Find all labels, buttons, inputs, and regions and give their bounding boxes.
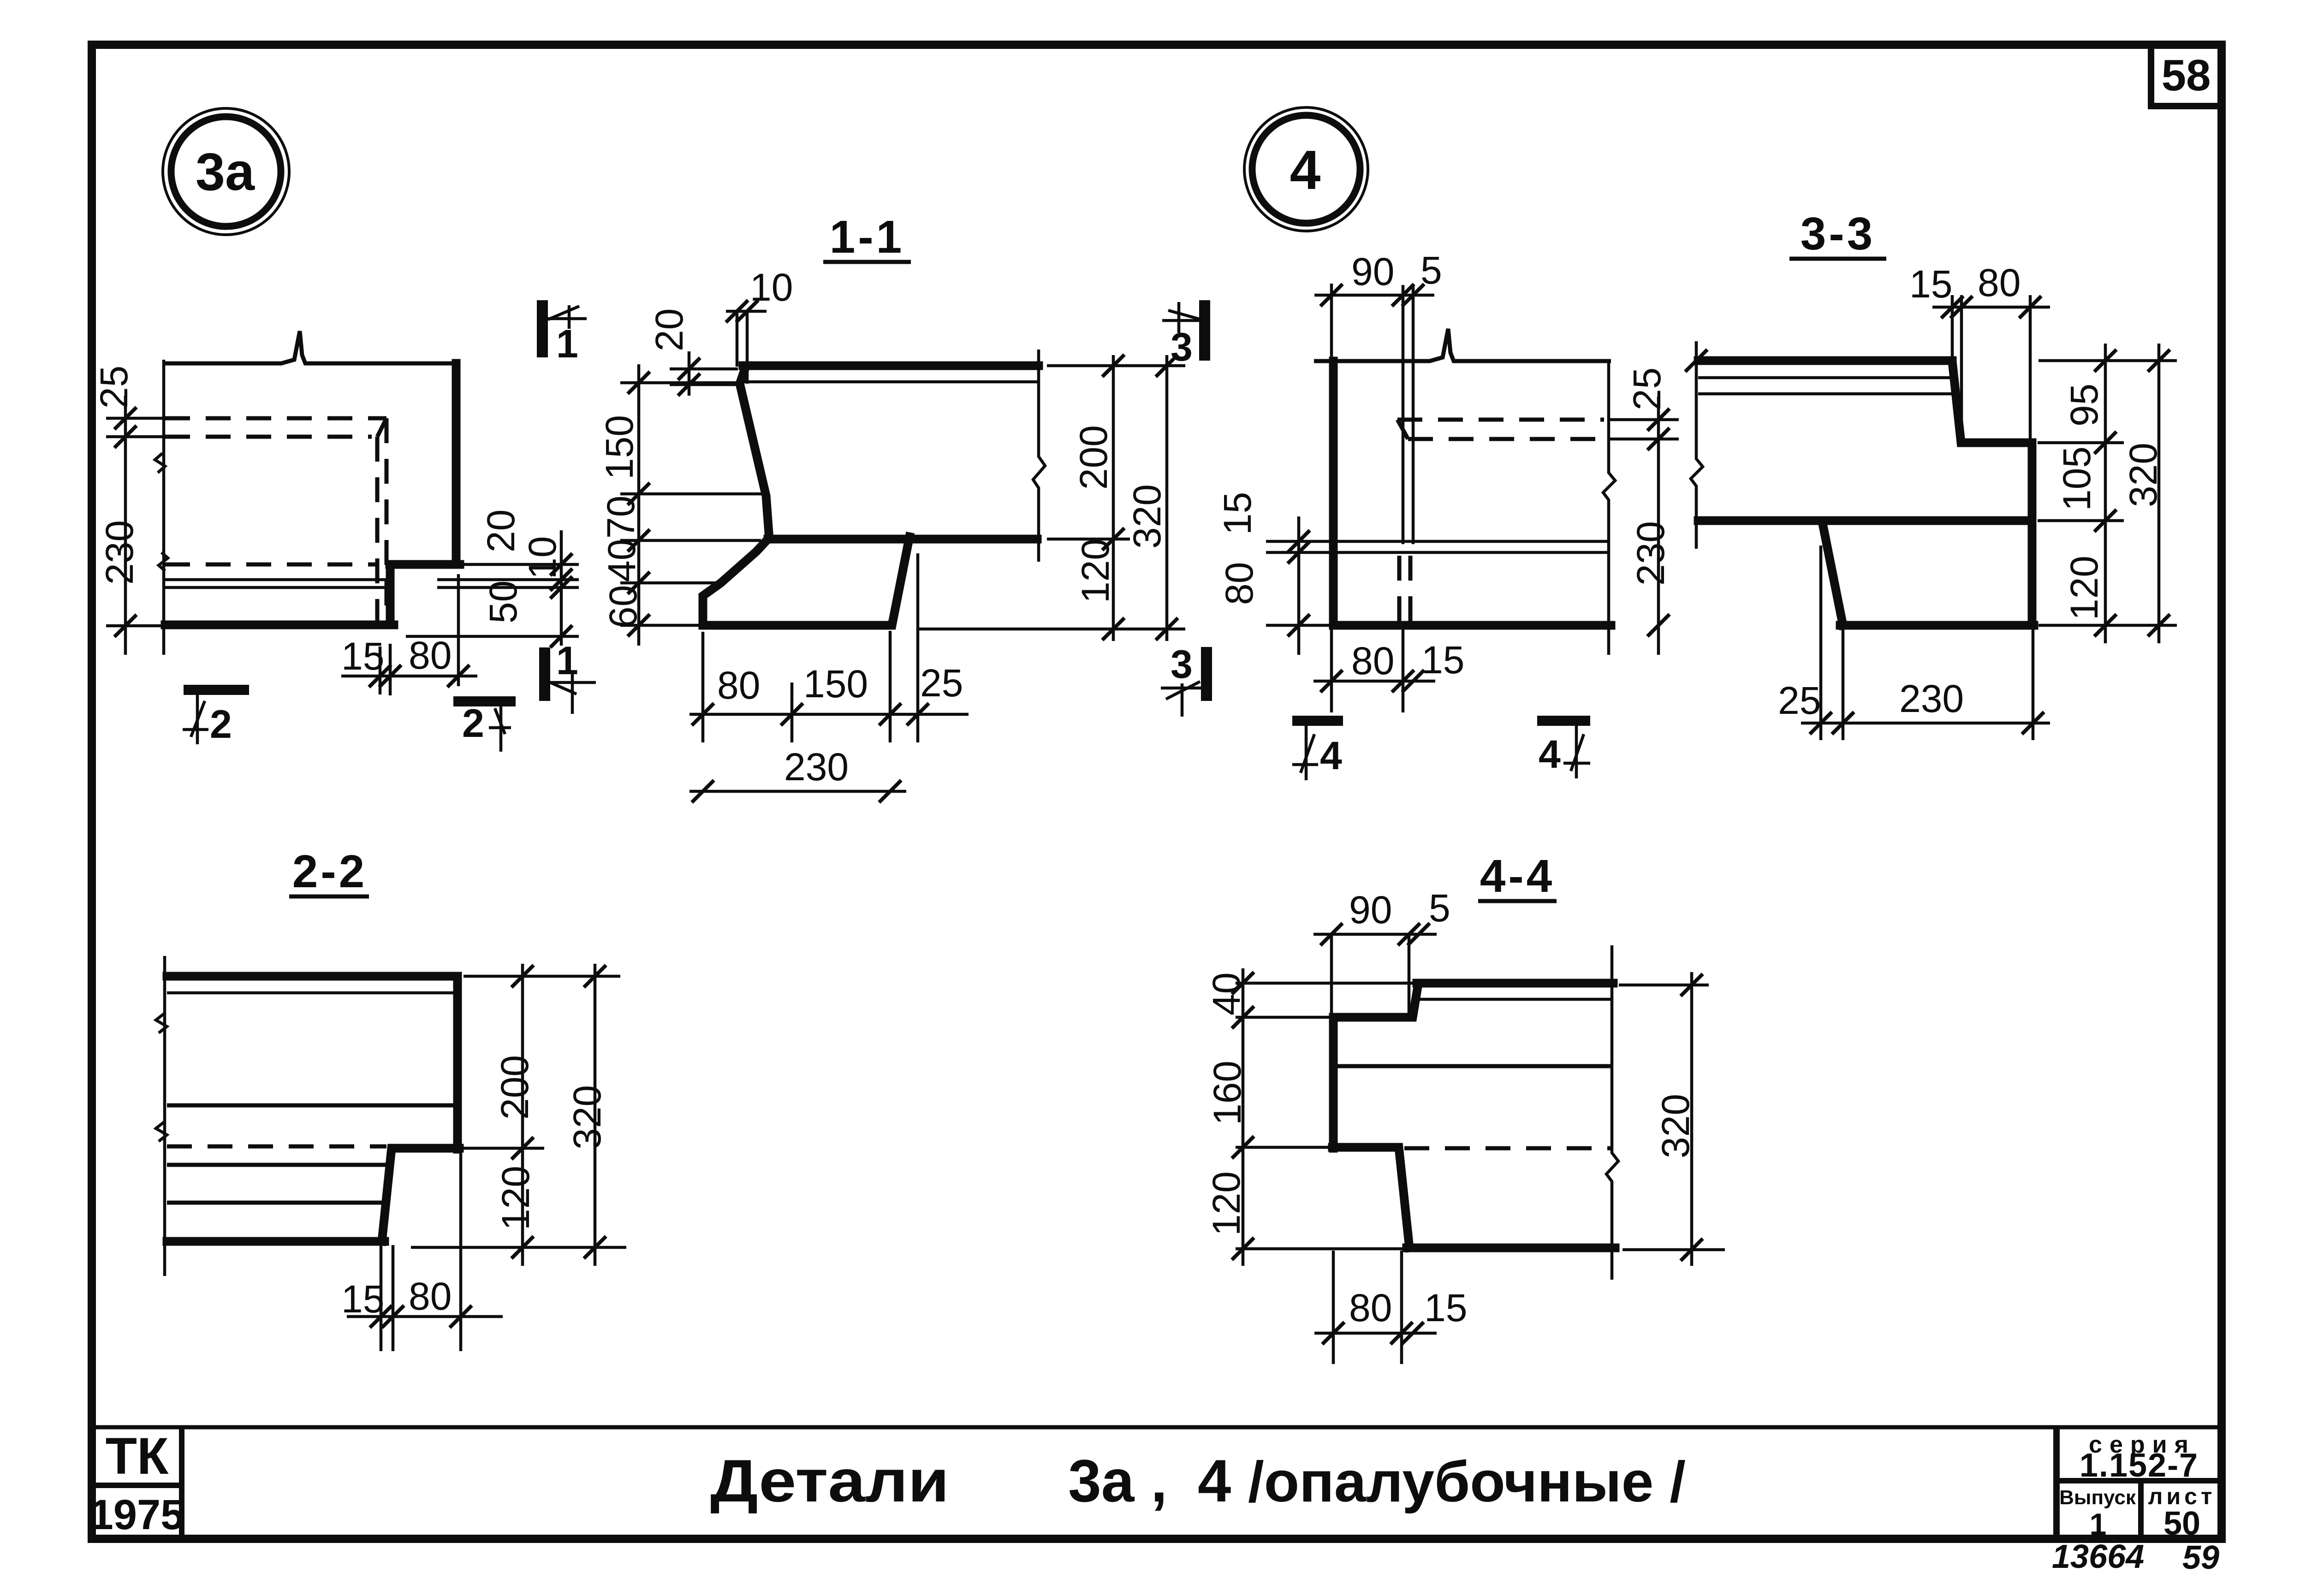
plan 4 double line inner xyxy=(1412,285,1415,544)
section 4-4 top dim ticks xyxy=(1320,923,1343,945)
section mark 2 left xyxy=(183,690,249,747)
plan 3a right dim ext y1257 xyxy=(437,578,579,581)
section 4-4 top edge xyxy=(1417,979,1613,988)
section 2-2 board line 1 xyxy=(167,1163,389,1167)
svg-text:120: 120 xyxy=(1074,539,1117,603)
section 1-1 left dim line 150/70/40/60 xyxy=(637,364,641,646)
plan 4 left ext lines xyxy=(1266,540,1332,543)
section 4-4 bottom dim ticks xyxy=(1322,1322,1344,1344)
section 2-2 bottom ext x826 xyxy=(380,1245,383,1351)
section 1-1 lower ledge outline xyxy=(703,537,909,625)
section 1-1 20 ext lines xyxy=(670,368,738,371)
plan 3a dim tick y1366 xyxy=(114,615,137,637)
svg-text:3а: 3а xyxy=(196,142,255,202)
plan 3a right dim ext y1366 xyxy=(406,635,579,638)
svg-text:2-2: 2-2 xyxy=(292,846,368,897)
svg-text:4: 4 xyxy=(1539,732,1561,777)
section mark 1 top xyxy=(542,300,587,366)
section mark 4 right xyxy=(1537,721,1590,778)
svg-text:80: 80 xyxy=(409,634,452,677)
section 4-4 right ext y2136 xyxy=(1619,984,1709,987)
plan 3a bottom dim line 15/80 xyxy=(341,675,477,678)
section 1-1 dim line 230 xyxy=(689,790,906,793)
section 1-1 bottom ext x1930 xyxy=(889,631,892,742)
plan 4 left dim line 15/80 xyxy=(1297,516,1301,655)
plan 3a dim tick y947 xyxy=(114,426,137,448)
section 1-1 bottom ext x1524 xyxy=(701,632,705,742)
plan 4 right dim ticks xyxy=(1647,409,1670,431)
svg-text:60: 60 xyxy=(601,585,645,628)
section 3-3 top ext x4253 xyxy=(1960,295,1963,446)
section 3-3 right dim ticks inner xyxy=(2094,350,2116,372)
section 4-4 mid line xyxy=(1335,1064,1611,1068)
svg-text:230: 230 xyxy=(1629,521,1672,586)
svg-text:5: 5 xyxy=(1420,249,1442,292)
plan 4 right dim line 25/230 xyxy=(1657,397,1660,655)
svg-text:Детали: Детали xyxy=(710,1447,949,1514)
section 1-1 ext for 10 right xyxy=(746,311,749,384)
section 3-3 top ext x4233 xyxy=(1951,295,1954,364)
svg-text:2: 2 xyxy=(210,702,232,747)
svg-text:80: 80 xyxy=(1349,1286,1392,1329)
section 3-3 right dim line 320 xyxy=(2157,344,2161,643)
svg-text:15: 15 xyxy=(1216,492,1259,535)
section 4-4 title underline xyxy=(1478,899,1557,903)
svg-text:4: 4 xyxy=(1320,734,1342,778)
svg-text:120: 120 xyxy=(494,1166,537,1230)
section 3-3 top dim line 15/80 xyxy=(1932,306,2050,309)
plan 3a formwork board line upper xyxy=(165,578,390,581)
section 4-4 bottom edge xyxy=(1407,1244,1615,1252)
section 1-1 left outline xyxy=(740,367,769,539)
section 4-4 left ext y2697 xyxy=(1236,1247,1406,1251)
plan 3a bottom dim ext x820 xyxy=(379,647,382,694)
section 3-3 slab top edge xyxy=(1698,356,1952,365)
section 3-3 right step outline xyxy=(1952,362,2032,625)
svg-text:25: 25 xyxy=(1625,368,1669,410)
section 3-3 right dim line 95/105/120 xyxy=(2104,344,2107,643)
plan 3a bottom face line xyxy=(165,621,394,629)
section 1-1 title underline xyxy=(823,260,911,264)
plan 3a hidden vertical dashed inner xyxy=(375,437,380,622)
section 4-4 left dim line 40/160/120 xyxy=(1242,968,1245,1266)
svg-text:3а ,: 3а , xyxy=(1068,1447,1167,1514)
svg-text:200: 200 xyxy=(493,1055,536,1120)
plan 3a dashed line at step level xyxy=(165,563,376,567)
svg-text:1: 1 xyxy=(556,322,578,366)
section 4-4 top ext x2887 xyxy=(1330,934,1333,1019)
section 2-2 mid line xyxy=(167,1104,458,1108)
svg-text:80: 80 xyxy=(1351,639,1394,682)
section 4-4 step outline xyxy=(1333,984,1418,1148)
svg-text:320: 320 xyxy=(1654,1094,1697,1158)
plan 3a hidden edge dashed lower xyxy=(165,435,372,439)
section 3-3 slab bottom edge xyxy=(1698,516,2032,525)
section 4-4 320 ticks xyxy=(1681,974,1703,996)
section 4-4 bottom ext x2891 xyxy=(1332,1251,1335,1364)
section 2-2 bottom edge xyxy=(167,1237,385,1246)
section 1-1 top dim line 10 xyxy=(726,310,767,313)
section 2-2 left extension line xyxy=(163,956,166,1276)
plan 4 bottom ext x3042 xyxy=(1402,628,1405,712)
svg-text:80: 80 xyxy=(717,664,760,707)
plan 3a right dim vertical line xyxy=(560,530,563,646)
svg-text:1: 1 xyxy=(556,639,578,683)
plan 3a hidden vertical dashed outer xyxy=(385,418,389,622)
svg-text:15: 15 xyxy=(1424,1286,1467,1329)
section mark 1 bottom xyxy=(545,639,596,714)
section 4-4 dashed line xyxy=(1404,1146,1611,1151)
section 3-3 left top tick xyxy=(1685,350,1707,372)
plan 4 top dim ext left xyxy=(1330,284,1333,364)
svg-text:150: 150 xyxy=(598,415,641,480)
plan 4 hidden edge dashed upper xyxy=(1397,418,1604,422)
section 3-3 320 ticks xyxy=(2148,350,2170,372)
svg-text:320: 320 xyxy=(2122,443,2165,507)
svg-text:10: 10 xyxy=(521,536,564,579)
svg-text:20: 20 xyxy=(479,510,523,552)
section 1-1 right top ext xyxy=(1047,364,1185,368)
section 3-3 ext for 25 dim xyxy=(1819,546,1823,740)
svg-text:4-4: 4-4 xyxy=(1480,850,1555,902)
plan 4 formwork board line lower xyxy=(1333,551,1609,554)
plan 4 bottom dim ticks xyxy=(1320,670,1343,692)
plan 4 right ext y910 xyxy=(1610,418,1679,421)
section 1-1 ext for 10 left xyxy=(736,311,739,367)
section 1-1 right extension line with break xyxy=(1033,350,1045,562)
svg-text:15: 15 xyxy=(341,1277,384,1321)
svg-text:90: 90 xyxy=(1349,888,1392,931)
title block top line xyxy=(92,1425,2222,1430)
section 3-3 bottom dim line 25/230 xyxy=(1801,722,2050,725)
svg-text:1: 1 xyxy=(2090,1507,2107,1541)
section 1-1 ticks for 10 xyxy=(726,300,748,322)
section 4-4 top ext x3055 xyxy=(1408,934,1411,1019)
section 2-2 board line 2 xyxy=(167,1201,386,1205)
plan 4 top dim ticks xyxy=(1320,284,1343,306)
svg-text:40: 40 xyxy=(600,539,643,582)
svg-text:4: 4 xyxy=(1198,1447,1231,1514)
plan 3a left dimension line 25/230 xyxy=(124,396,127,655)
svg-text:80: 80 xyxy=(1978,261,2021,304)
plan 4 right ext y952 xyxy=(1610,438,1679,441)
svg-text:15: 15 xyxy=(341,635,384,678)
section 4-4 top dim line 90/5 xyxy=(1313,933,1437,936)
plan 4 left dim ticks xyxy=(1288,530,1310,552)
svg-text:5: 5 xyxy=(1429,886,1450,930)
svg-text:15: 15 xyxy=(1909,262,1952,306)
plan 3a hidden corner mitre xyxy=(377,418,386,437)
svg-text:50: 50 xyxy=(2163,1505,2200,1542)
section 3-3 bottom dim ticks xyxy=(1810,712,1832,734)
section 2-2 dashed line at step level xyxy=(167,1145,386,1149)
plan 3a bottom dim ext x997 xyxy=(457,574,460,686)
svg-text:230: 230 xyxy=(784,745,849,789)
main title text xyxy=(710,1447,1686,1514)
svg-text:1-1: 1-1 xyxy=(830,211,905,263)
plan 3a right dim ticks xyxy=(550,553,572,576)
plan 3a inner wall face xyxy=(386,564,395,625)
svg-text:200: 200 xyxy=(1072,425,1115,490)
section 3-3 top ext x4402 xyxy=(2029,295,2032,446)
title block series cell xyxy=(2056,1427,2222,1542)
section 2-2 title underline xyxy=(289,895,369,899)
svg-text:58: 58 xyxy=(2162,51,2211,100)
plan 4 dashed vertical below xyxy=(1397,556,1402,623)
section 1-1 right dim line 320 xyxy=(1165,355,1169,641)
svg-text:320: 320 xyxy=(1125,484,1169,549)
section 3-3 right ext y782 xyxy=(2039,359,2177,362)
section mark 3 top xyxy=(1162,300,1205,369)
svg-text:25: 25 xyxy=(92,366,136,409)
plan 3a dim ext y907 xyxy=(106,417,166,420)
section 2-2 break mark lower xyxy=(156,1122,167,1141)
section 2-2 bottom dim line 15/80 xyxy=(347,1315,503,1318)
section 1-1 slab bottom edge xyxy=(768,535,1037,544)
svg-text:25: 25 xyxy=(1778,679,1821,722)
plan 4 hidden edge dashed lower xyxy=(1408,437,1604,441)
section 3-3 right ext y951 xyxy=(2038,441,2124,445)
svg-text:80: 80 xyxy=(409,1275,452,1318)
section 1-1 left dim ticks xyxy=(628,372,650,394)
svg-text:120: 120 xyxy=(1205,1171,1248,1236)
section 4-4 right dim line 320 xyxy=(1690,972,1694,1266)
section 2-2 right edge xyxy=(453,976,462,1149)
detail circle 4 xyxy=(1244,107,1368,231)
plan 3a break mark on left extension xyxy=(155,453,165,473)
plan 3a step edge xyxy=(390,560,460,569)
section 1-1 right mid ext xyxy=(1047,538,1130,541)
svg-text:Выпуск: Выпуск xyxy=(2059,1486,2136,1509)
svg-text:160: 160 xyxy=(1206,1061,1249,1125)
plan 4 top edge line with break xyxy=(1314,329,1611,361)
svg-text:230: 230 xyxy=(98,520,141,585)
section 2-2 bottom dim ticks xyxy=(370,1305,392,1328)
section 2-2 320 ticks xyxy=(584,965,606,987)
svg-text:90: 90 xyxy=(1351,250,1394,293)
svg-text:150: 150 xyxy=(803,662,868,706)
svg-text:95: 95 xyxy=(2062,384,2106,427)
svg-text:3-3: 3-3 xyxy=(1801,208,1876,260)
section 2-2 right ext y2728 xyxy=(411,1246,626,1249)
section 3-3 top dim ticks xyxy=(1941,296,1963,318)
section mark 3 bottom xyxy=(1161,642,1206,717)
plan 4 bottom face line xyxy=(1333,621,1611,630)
section 1-1 left ext lines xyxy=(620,381,742,385)
section 2-2 right dim ticks xyxy=(511,965,534,987)
title block TK cell xyxy=(90,1427,184,1539)
section 3-3 lower ledge slant xyxy=(1822,522,1843,625)
section 3-3 slab inner line 1 xyxy=(1698,376,1951,380)
section 3-3 bottom ext x3996 xyxy=(1842,629,1845,740)
plan 3a right wall edge (cut) xyxy=(452,363,461,564)
section 1-1 ticks 20 xyxy=(678,358,700,380)
section 4-4 left ext y2206 xyxy=(1236,1016,1332,1019)
plan 4 top dim line 90/5 xyxy=(1314,294,1434,297)
plan 3a break mark at left of step dash xyxy=(159,552,168,571)
plan 3a dim ext y1366 xyxy=(106,624,166,628)
svg-text:59: 59 xyxy=(2182,1539,2219,1576)
section 3-3 right ext y1356 xyxy=(2039,624,2177,627)
section 1-1 slab top inner line xyxy=(744,380,1037,384)
section 1-1 right dim line 200/120 xyxy=(1112,355,1115,641)
section 2-2 bottom ext x999 xyxy=(459,1150,463,1351)
section 2-2 step and left slant xyxy=(382,1148,459,1241)
section 1-1 bottom dim ticks xyxy=(692,703,714,725)
section 4-4 lower step and slant xyxy=(1332,1147,1409,1248)
svg-text:1.152-7: 1.152-7 xyxy=(2080,1447,2199,1484)
svg-text:ТК: ТК xyxy=(106,1427,169,1485)
plan 4 hidden corner mitre xyxy=(1397,420,1408,439)
section 4-4 bottom dim line 80/15 xyxy=(1314,1332,1437,1335)
section 4-4 right ext y2697 xyxy=(1623,1248,1725,1252)
plan 4 left wall edge xyxy=(1329,361,1338,625)
svg-text:120: 120 xyxy=(2062,556,2106,620)
svg-text:/опалубочные /: /опалубочные / xyxy=(1248,1450,1686,1514)
page number box 58 xyxy=(2151,45,2222,106)
section 4-4 left ext y2132 xyxy=(1236,982,1415,985)
svg-text:13664: 13664 xyxy=(2052,1538,2144,1575)
svg-text:230: 230 xyxy=(1899,677,1964,720)
section 4-4 left dim ticks xyxy=(1232,972,1254,994)
section 3-3 ledge bottom edge xyxy=(1840,621,2034,630)
plan 3a left extension line xyxy=(162,360,166,655)
section 4-4 right extension with break xyxy=(1606,945,1618,1280)
section 2-2 top edge xyxy=(167,972,458,981)
svg-text:15: 15 xyxy=(1421,638,1464,682)
svg-text:70: 70 xyxy=(599,496,642,539)
svg-text:2: 2 xyxy=(462,701,484,746)
section 1-1 bottom dim line 80/150/25 xyxy=(689,713,969,716)
plan 3a right dim ext y1224 xyxy=(461,563,579,566)
section 1-1 right bottom ext xyxy=(918,628,1185,631)
svg-text:25: 25 xyxy=(920,661,963,705)
plan 4 bottom dim line 80/15 xyxy=(1313,680,1435,683)
svg-text:105: 105 xyxy=(2055,446,2098,511)
plan 3a bottom dim ticks xyxy=(369,665,391,687)
section 4-4 top inner line xyxy=(1417,998,1613,1001)
svg-text:80: 80 xyxy=(1218,562,1261,605)
plan 3a right dim ext y1274 xyxy=(437,586,579,589)
section 2-2 right dim line 200/120 xyxy=(521,964,524,1266)
section 1-1 bottom ext x1717 xyxy=(790,682,794,742)
plan 3a top edge line with break xyxy=(165,331,456,363)
detail circle 3a xyxy=(163,108,289,235)
section 2-2 bottom ext x852 xyxy=(392,1245,395,1351)
svg-text:4: 4 xyxy=(1290,139,1321,201)
plan 4 double line outer xyxy=(1402,285,1405,544)
section 4-4 left ext y2488 xyxy=(1236,1146,1332,1149)
section 2-2 right ext y2511 xyxy=(464,1147,544,1150)
svg-text:50: 50 xyxy=(481,581,525,623)
svg-text:3: 3 xyxy=(1171,642,1193,687)
plan 4 right extension with break xyxy=(1603,362,1615,655)
svg-text:320: 320 xyxy=(565,1085,609,1150)
plan 3a bottom dim ext x846 xyxy=(389,644,392,695)
plan 4 formwork board line upper xyxy=(1333,540,1609,543)
svg-text:1975: 1975 xyxy=(90,1491,184,1538)
section 1-1 right dim ticks xyxy=(1102,355,1124,377)
section 3-3 left extension line with break xyxy=(1691,341,1703,549)
section 3-3 right ext y1129 xyxy=(2038,519,2124,522)
svg-text:40: 40 xyxy=(1205,973,1248,1015)
plan 4 bottom ext x2887 xyxy=(1330,628,1333,712)
section 1-1 bottom ext x1990 xyxy=(916,553,920,742)
section 3-3 bottom ext x4408 xyxy=(2032,629,2035,740)
plan 3a dim tick y907 xyxy=(114,407,137,429)
section 2-2 right dim line 320 xyxy=(594,964,597,1266)
section mark 4 left xyxy=(1292,721,1343,780)
section mark 2 right xyxy=(453,701,516,752)
section 2-2 break mark upper xyxy=(156,1014,167,1033)
plan 3a formwork board line lower xyxy=(165,586,390,589)
section 1-1 230 ticks xyxy=(692,780,714,802)
svg-text:20: 20 xyxy=(648,309,691,351)
section 3-3 slab inner line 2 xyxy=(1698,392,1955,396)
section 2-2 right ext y2117 xyxy=(464,975,620,978)
section 2-2 top inner line xyxy=(167,991,458,995)
section 4-4 bottom ext x3039 xyxy=(1400,1251,1403,1364)
section 1-1 slab top edge xyxy=(743,362,1039,370)
svg-text:10: 10 xyxy=(750,266,793,309)
plan 3a hidden edge dashed upper xyxy=(165,416,386,421)
section 1-1 left dim 20 vertical line xyxy=(688,351,691,396)
section 3-3 title underline xyxy=(1789,257,1886,261)
svg-text:3: 3 xyxy=(1171,325,1193,369)
plan 3a dim ext y947 xyxy=(106,435,166,439)
